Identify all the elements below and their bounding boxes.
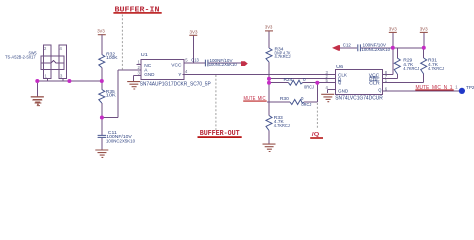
- svg-text:Q: Q: [338, 80, 342, 85]
- svg-text:U6: U6: [336, 64, 344, 69]
- svg-text:10K: 10K: [106, 93, 116, 98]
- svg-text:3V3: 3V3: [265, 25, 273, 31]
- svg-text:0RCJ: 0RCJ: [301, 102, 311, 107]
- svg-text:4.7KRCJ: 4.7KRCJ: [428, 66, 444, 71]
- svg-text:5: 5: [185, 58, 188, 63]
- svg-text:3V3: 3V3: [420, 27, 428, 33]
- svg-text:BUFFER-IN: BUFFER-IN: [115, 6, 160, 14]
- svg-text:R24: R24: [284, 77, 294, 82]
- svg-text:C13: C13: [191, 57, 199, 62]
- svg-text:2: 2: [44, 46, 47, 51]
- svg-text:3V3: 3V3: [389, 27, 397, 33]
- svg-text:4.7KRCJ: 4.7KRCJ: [274, 123, 290, 128]
- svg-text:CLR: CLR: [369, 80, 380, 85]
- svg-text:0: 0: [301, 96, 304, 101]
- svg-text:TP2: TP2: [466, 85, 474, 90]
- svg-text:MUTE_MIC_N_1: MUTE_MIC_N_1: [416, 85, 453, 91]
- svg-text:Q: Q: [378, 87, 382, 92]
- svg-text:3V3: 3V3: [97, 29, 105, 35]
- svg-text:GND: GND: [338, 89, 349, 94]
- svg-text:BUFFER-OUT: BUFFER-OUT: [200, 130, 241, 138]
- svg-text:0: 0: [303, 77, 306, 82]
- svg-text:100K: 100K: [106, 55, 118, 60]
- svg-text:Y: Y: [178, 72, 181, 77]
- svg-text:1: 1: [455, 84, 458, 89]
- svg-text:2: 2: [138, 65, 141, 70]
- svg-text:U1: U1: [141, 52, 149, 57]
- svg-text:1: 1: [138, 59, 141, 64]
- svg-text:SN74LVC1G74DCUR: SN74LVC1G74DCUR: [335, 95, 383, 101]
- svg-text:TS-A52B-2-S017: TS-A52B-2-S017: [5, 55, 36, 60]
- svg-text:100NC2X5K10: 100NC2X5K10: [209, 62, 237, 67]
- svg-text:3V3: 3V3: [190, 29, 198, 35]
- svg-text:4: 4: [60, 46, 63, 51]
- svg-text:3: 3: [60, 73, 63, 78]
- svg-text:VCC: VCC: [171, 63, 182, 68]
- svg-text:4.7KRCJ: 4.7KRCJ: [275, 54, 291, 59]
- svg-text:R30: R30: [280, 96, 290, 101]
- svg-text:GND: GND: [144, 72, 155, 77]
- svg-text:1: 1: [45, 73, 48, 78]
- svg-text:C12: C12: [343, 42, 351, 47]
- svg-text:100NC2X5K10: 100NC2X5K10: [106, 138, 135, 143]
- svg-text:MUTE_MIC: MUTE_MIC: [244, 96, 266, 102]
- svg-text:4: 4: [185, 69, 188, 74]
- svg-text:0RCJ: 0RCJ: [304, 85, 314, 90]
- svg-text:100NC2X5K10: 100NC2X5K10: [362, 47, 391, 52]
- svg-text:SN74AUP1G17DCKR_SC70_5P: SN74AUP1G17DCKR_SC70_5P: [140, 81, 212, 87]
- svg-text:/Q: /Q: [312, 132, 320, 138]
- svg-text:4.7KRCJ: 4.7KRCJ: [403, 66, 419, 71]
